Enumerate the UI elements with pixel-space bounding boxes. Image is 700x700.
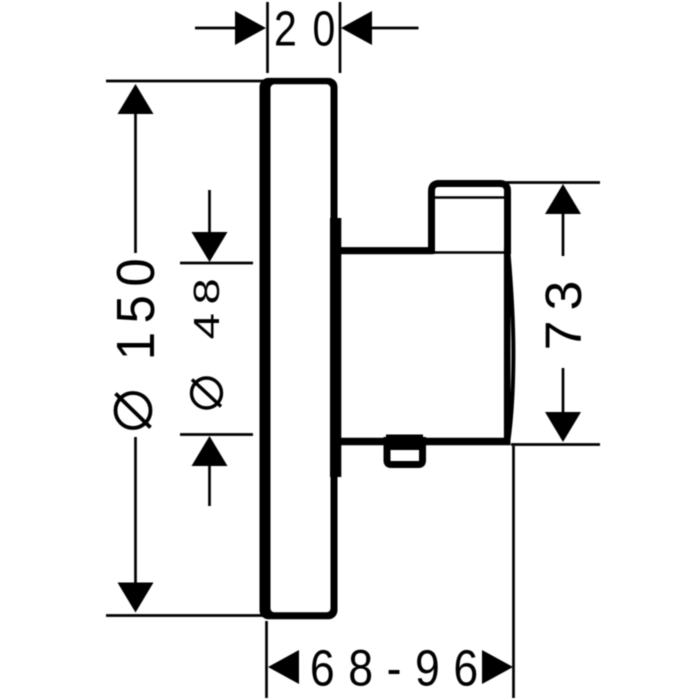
- svg-text:48: 48: [186, 270, 227, 340]
- svg-text:20: 20: [274, 1, 351, 56]
- svg-text:68-96: 68-96: [310, 641, 492, 697]
- svg-text:150: 150: [107, 250, 166, 361]
- svg-text:73: 73: [535, 271, 593, 351]
